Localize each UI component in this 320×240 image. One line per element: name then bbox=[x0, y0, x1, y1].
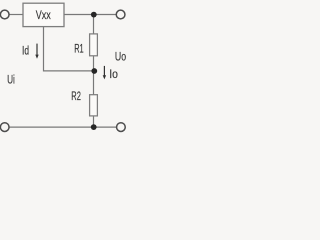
svg-text:R2: R2 bbox=[71, 89, 81, 103]
svg-text:R1: R1 bbox=[74, 42, 84, 56]
svg-text:Io: Io bbox=[109, 67, 118, 81]
svg-text:Uo: Uo bbox=[115, 49, 126, 63]
svg-text:Ui: Ui bbox=[7, 72, 15, 86]
svg-text:Id: Id bbox=[22, 44, 29, 58]
svg-text:Vxx: Vxx bbox=[36, 8, 52, 22]
